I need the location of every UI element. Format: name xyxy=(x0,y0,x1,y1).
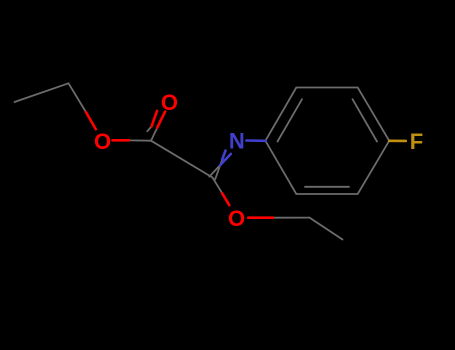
svg-text:O: O xyxy=(228,206,245,231)
svg-text:F: F xyxy=(410,129,423,154)
svg-text:O: O xyxy=(161,90,178,115)
svg-text:O: O xyxy=(94,129,111,154)
svg-text:N: N xyxy=(229,128,245,153)
